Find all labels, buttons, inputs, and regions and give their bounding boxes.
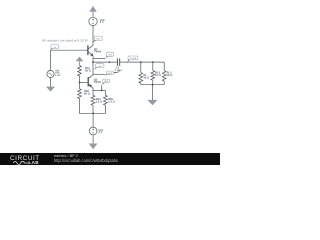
wire RL2 bottom lead	[152, 80, 154, 85]
junction stub/rail	[101, 90, 103, 92]
svg-text:9 V: 9 V	[98, 131, 102, 134]
stub wire to flag vE1	[93, 58, 105, 60]
svg-text:1 µF: 1 µF	[115, 69, 121, 72]
resistor RL3	[162, 71, 166, 81]
ground (load)	[147, 100, 157, 105]
node flag vE1	[105, 52, 113, 58]
svg-text:vc1: vc1	[96, 38, 100, 41]
junction on out wire	[109, 61, 111, 63]
wire V51 to ground	[92, 135, 94, 144]
wire sine to ground	[50, 78, 52, 87]
wire to load ground	[152, 85, 154, 101]
resistor R52	[78, 89, 82, 99]
junction load 2	[152, 61, 154, 63]
node flag vC1	[93, 36, 102, 43]
wire R55 to rail	[104, 105, 106, 113]
ground (input)	[46, 87, 55, 92]
label R52 60 Ohm	[84, 90, 91, 96]
emitter top rail	[93, 89, 105, 91]
wire RL bottom lead	[140, 83, 142, 85]
transistor Q1	[88, 45, 93, 56]
footer text line 2	[54, 158, 118, 163]
svg-text:1 mV: 1 mV	[55, 74, 61, 77]
label RL2 16 Ohm	[155, 71, 162, 77]
junction load 1	[140, 61, 142, 63]
wire right leg R55	[104, 90, 106, 95]
load bottom rail	[141, 84, 164, 86]
ground (V51)	[89, 144, 98, 150]
junction at out tee	[92, 61, 94, 63]
svg-text:16 Ω: 16 Ω	[143, 77, 150, 80]
wire capacitor to load rail	[120, 61, 165, 63]
svg-text:60 Ω: 60 Ω	[85, 70, 92, 73]
label V51 9 V	[98, 129, 103, 134]
label C1 1 uF	[115, 67, 121, 72]
label Q2 TIP30	[94, 79, 102, 85]
label R54 1.5 Ohm	[96, 98, 103, 104]
stub wire to flag vC2	[93, 73, 105, 75]
capacitor C1	[117, 58, 119, 65]
label R51 60 Ohm	[85, 67, 92, 73]
node flag vB2	[101, 79, 109, 85]
wire R54 to rail	[92, 105, 94, 113]
svg-text:V_out: V_out	[130, 57, 137, 60]
wire Q2 base	[80, 81, 88, 83]
resistor RL2	[151, 71, 155, 81]
svg-text:vb2: vb2	[104, 80, 109, 83]
voltage source V50	[89, 17, 97, 25]
node flag V_out	[127, 56, 138, 62]
CircuitLab logo	[10, 155, 40, 162]
label Q1 TIP29	[94, 48, 102, 54]
svg-text:1.5 Ω: 1.5 Ω	[96, 100, 103, 103]
wire R52 to bottom rail	[79, 99, 81, 114]
wire RL top lead	[140, 62, 142, 73]
stub to flag vB2	[101, 85, 103, 90]
svg-text:16 Ω: 16 Ω	[155, 74, 162, 77]
svg-text:out: out	[98, 65, 102, 68]
wire RL3 top lead	[163, 62, 165, 71]
svg-text:TIP29: TIP29	[94, 51, 102, 54]
junction Q2 base / divider	[79, 82, 81, 84]
sine source V52	[47, 70, 54, 77]
svg-text:vc2: vc2	[108, 72, 112, 75]
svg-text:TIP30: TIP30	[94, 81, 102, 84]
svg-text:16 Ω: 16 Ω	[167, 74, 174, 77]
wire input vertical	[49, 50, 51, 70]
svg-text:60 Ω: 60 Ω	[84, 93, 91, 96]
resistor R55	[104, 95, 108, 105]
svg-text:1.5 Ω: 1.5 Ω	[108, 100, 115, 103]
wire R51 to R52	[79, 76, 81, 89]
svg-text:ve1: ve1	[108, 53, 113, 56]
footer bar	[0, 153, 220, 166]
label RL3 16 Ohm	[167, 71, 174, 77]
wire output node to capacitor	[93, 61, 117, 63]
junction load ground	[152, 84, 154, 86]
label V52 sine 1 mV	[55, 69, 61, 77]
resistor RL	[139, 73, 143, 83]
node flag vC2	[105, 71, 114, 76]
transistor Q2	[88, 75, 93, 88]
wire V50 to Q1 collector	[92, 26, 94, 46]
resistor R54	[91, 95, 95, 105]
voltage source V51	[89, 127, 97, 135]
junction bottom rail	[92, 112, 94, 114]
footer text line 1	[54, 153, 78, 158]
wire Q1 emitter down to Q2 collector	[92, 56, 94, 75]
resistor R51	[78, 66, 82, 77]
label V50 9 V	[100, 19, 105, 24]
label R55 1.5 Ohm	[108, 98, 115, 104]
wire left leg R54	[92, 90, 94, 95]
node flag out	[93, 64, 104, 70]
VCC flag (top)	[89, 6, 97, 17]
wire input horizontal to Q1 base	[50, 49, 87, 51]
node flag in	[50, 45, 58, 51]
bottom rail	[79, 112, 106, 114]
wire Q2 emitter to rail	[92, 88, 94, 91]
svg-text:All resistors are rated at 0.2: All resistors are rated at 0.25 W	[42, 39, 88, 43]
VCC flag (bias divider)	[76, 57, 84, 66]
wire fragment near C1	[114, 70, 123, 73]
wire RL2 top lead	[152, 62, 154, 71]
wire RL3 bottom lead	[163, 81, 165, 85]
label RL 16 Ohm	[143, 74, 150, 80]
wire rail to V51	[92, 113, 94, 127]
svg-text:9 V: 9 V	[100, 21, 104, 24]
